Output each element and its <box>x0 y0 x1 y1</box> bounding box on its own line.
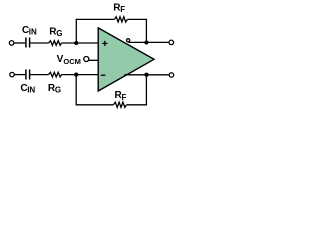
svg-text:G: G <box>56 29 62 38</box>
svg-text:OCM: OCM <box>63 57 81 66</box>
svg-text:F: F <box>122 93 127 102</box>
svg-text:IN: IN <box>29 28 37 37</box>
svg-text:IN: IN <box>27 86 35 95</box>
svg-text:F: F <box>120 5 125 14</box>
svg-text:G: G <box>55 86 61 95</box>
